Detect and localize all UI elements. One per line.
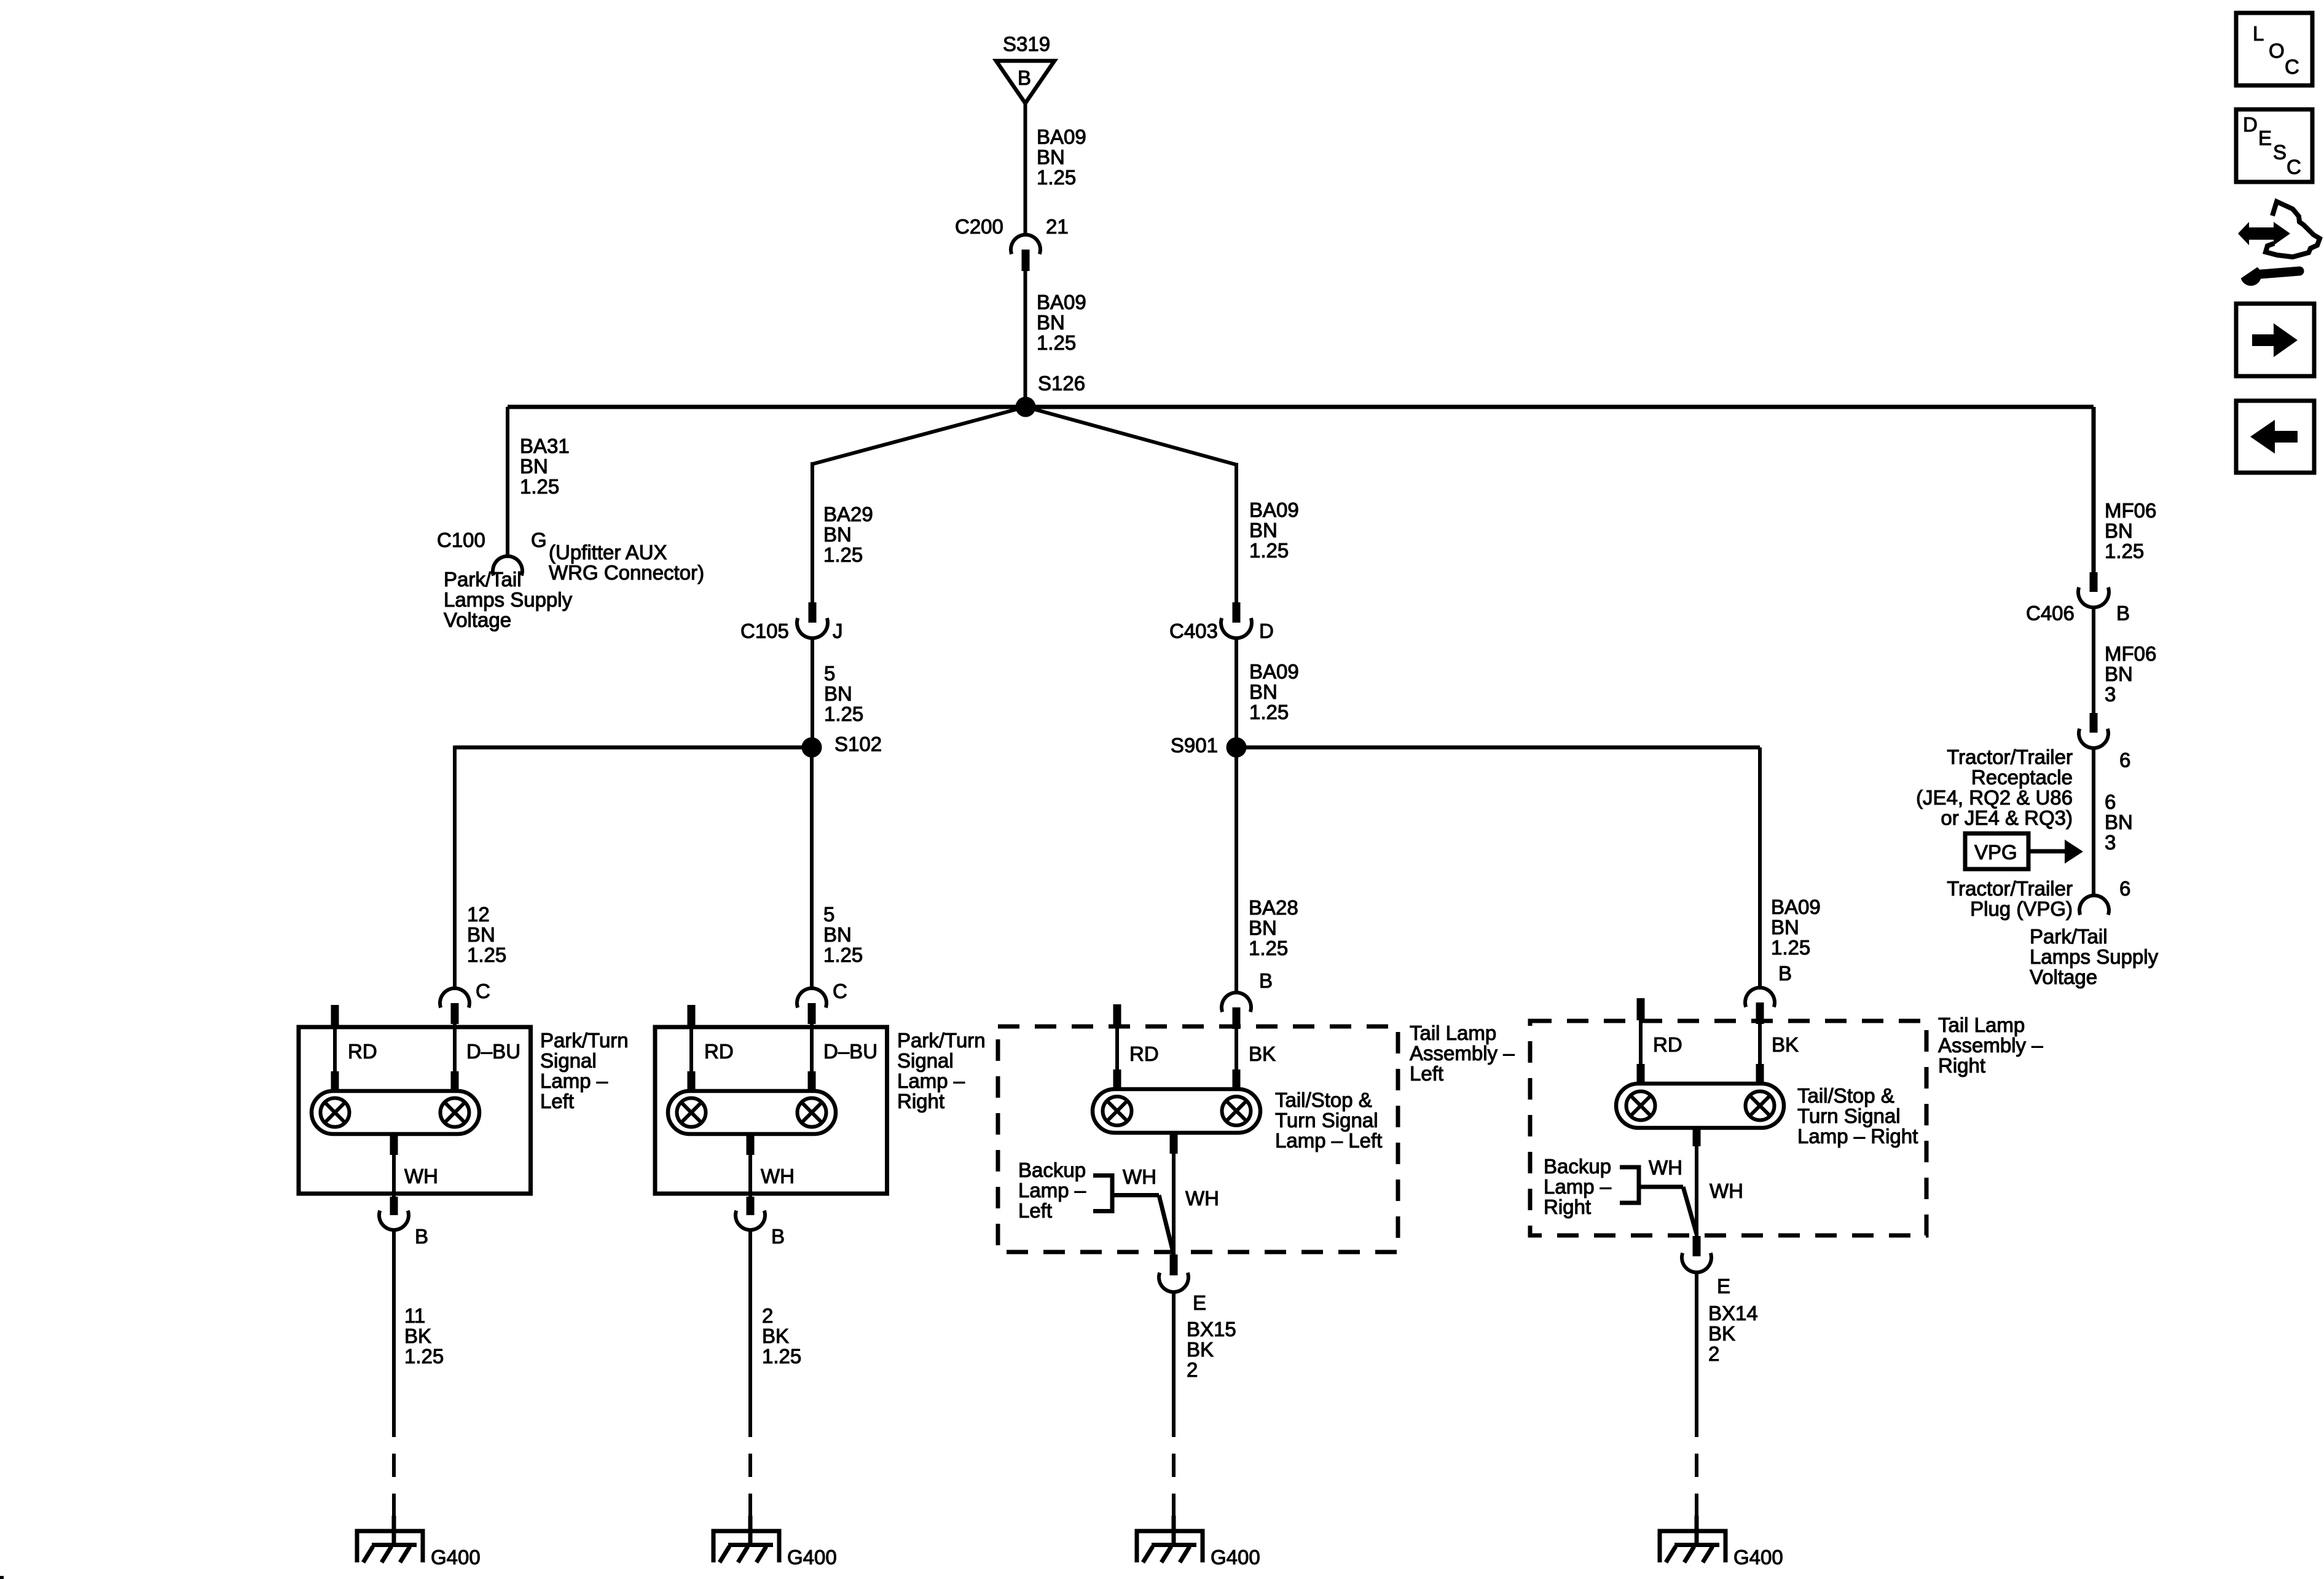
svg-text:Park/Tail: Park/Tail xyxy=(2030,925,2108,948)
svg-text:Turn Signal: Turn Signal xyxy=(1797,1105,1901,1127)
tail lamp left BK lead lamp pin xyxy=(1233,1069,1241,1089)
previous page arrow xyxy=(2274,431,2298,443)
park/turn signal lamp left component box xyxy=(299,1027,531,1194)
svg-text:Right: Right xyxy=(1938,1054,1985,1077)
svg-text:Park/Tail: Park/Tail xyxy=(444,568,522,591)
svg-text:1.25: 1.25 xyxy=(1249,937,1288,959)
tail lamp left BK lead wire xyxy=(1235,1029,1238,1071)
svg-text:1.25: 1.25 xyxy=(1037,166,1076,189)
tail lamp assembly right dashed box xyxy=(1530,1021,1926,1235)
connector C200 male pin xyxy=(1022,250,1030,271)
svg-text:3: 3 xyxy=(2105,831,2116,854)
svg-text:Lamp – Right: Lamp – Right xyxy=(1797,1125,1918,1148)
tail lamp left RD lead lamp pin xyxy=(1113,1069,1121,1089)
svg-text:WH: WH xyxy=(1649,1156,1682,1179)
svg-text:Tractor/Trailer: Tractor/Trailer xyxy=(1947,877,2073,900)
svg-text:C: C xyxy=(476,980,490,1002)
svg-text:Tractor/Trailer: Tractor/Trailer xyxy=(1947,746,2073,768)
svg-text:Left: Left xyxy=(540,1090,574,1112)
svg-text:Left: Left xyxy=(1018,1199,1052,1222)
tail lamp assembly left dashed box xyxy=(998,1026,1398,1252)
svg-text:G: G xyxy=(531,529,547,551)
svg-text:BA31: BA31 xyxy=(520,435,570,457)
svg-text:BA09: BA09 xyxy=(1249,660,1299,683)
next page arrow xyxy=(2252,334,2275,346)
wire 6 BN 3 between receptacle and plug xyxy=(2092,748,2095,896)
tail lamp right BK lead wire xyxy=(1758,1024,1762,1065)
park/turn signal lamp right RD lead wire xyxy=(689,1027,693,1073)
svg-text:(Upfitter AUX: (Upfitter AUX xyxy=(549,541,667,564)
park/turn signal lamp left bulb stadium outline xyxy=(312,1091,479,1134)
connector C403 male pin xyxy=(1233,602,1241,623)
VPG arrow head xyxy=(2065,840,2083,864)
svg-text:B: B xyxy=(771,1225,785,1248)
diagnostic icon panel outline xyxy=(2266,202,2320,257)
tail lamp right WH lamp pin xyxy=(1693,1128,1701,1146)
svg-text:1.25: 1.25 xyxy=(762,1345,801,1368)
svg-text:VPG: VPG xyxy=(1974,841,2017,864)
svg-text:BN: BN xyxy=(467,923,495,946)
backup lamp left bracket xyxy=(1093,1173,1112,1213)
svg-text:B: B xyxy=(1259,969,1273,992)
svg-text:D–BU: D–BU xyxy=(823,1040,877,1063)
VPG arrow shaft xyxy=(2028,849,2067,854)
svg-text:Voltage: Voltage xyxy=(444,608,511,631)
main horizontal bus wire from C100 branch to MF06 branch xyxy=(508,405,2094,409)
ground G400 symbol (lamp1) xyxy=(357,1516,423,1562)
diagnostic icon double arrow xyxy=(2238,222,2290,245)
svg-text:C105: C105 xyxy=(740,620,789,642)
svg-text:E: E xyxy=(2258,127,2272,149)
wire MF06 vertical from bus to C406 xyxy=(2092,407,2096,573)
svg-text:D: D xyxy=(2243,113,2258,136)
park/turn signal lamp left WH lead lamp pin xyxy=(390,1134,398,1155)
svg-text:Right: Right xyxy=(1544,1195,1591,1218)
connector C100 female arc xyxy=(493,556,522,575)
tail/stop lamp left filament circle right xyxy=(1222,1097,1251,1125)
connector C200 female arc xyxy=(1011,235,1040,254)
wire horizontal from S102 to left lamp branch xyxy=(455,746,812,750)
svg-text:1.25: 1.25 xyxy=(1771,936,1810,959)
svg-text:BN: BN xyxy=(1037,311,1065,334)
svg-text:Assembly –: Assembly – xyxy=(1410,1042,1515,1065)
connector B (tail lamp left) male pin xyxy=(1233,1007,1241,1029)
svg-text:D–BU: D–BU xyxy=(466,1040,520,1063)
svg-text:Receptacle: Receptacle xyxy=(1971,766,2073,789)
park/turn signal lamp left WH lead wire xyxy=(392,1155,396,1199)
svg-text:WH: WH xyxy=(1123,1165,1156,1188)
svg-text:Backup: Backup xyxy=(1544,1155,1611,1178)
svg-text:BA29: BA29 xyxy=(823,503,873,526)
svg-text:1.25: 1.25 xyxy=(1249,701,1289,723)
svg-text:1.25: 1.25 xyxy=(2105,540,2144,562)
svg-text:2: 2 xyxy=(1187,1358,1198,1381)
park/turn signal lamp left bulb filament circle left xyxy=(321,1098,350,1127)
svg-text:BN: BN xyxy=(823,523,852,546)
svg-text:BA09: BA09 xyxy=(1037,125,1086,148)
svg-text:Lamp –: Lamp – xyxy=(540,1069,608,1092)
svg-text:E: E xyxy=(1717,1275,1730,1297)
svg-text:Plug (VPG): Plug (VPG) xyxy=(1970,897,2073,920)
svg-text:C200: C200 xyxy=(955,215,1003,238)
park/turn signal lamp right WH lead wire xyxy=(748,1155,752,1199)
park/turn signal lamp right component box xyxy=(655,1027,887,1194)
svg-text:G400: G400 xyxy=(1733,1546,1783,1569)
svg-text:S901: S901 xyxy=(1171,734,1218,757)
svg-text:G400: G400 xyxy=(431,1546,481,1569)
svg-text:C: C xyxy=(2287,156,2301,178)
splice node S102 junction dot xyxy=(802,738,822,758)
svg-text:Signal: Signal xyxy=(540,1049,597,1072)
svg-text:5: 5 xyxy=(823,903,834,926)
svg-text:BA09: BA09 xyxy=(1771,896,1821,918)
svg-text:Lamp –: Lamp – xyxy=(1018,1179,1086,1202)
svg-text:Voltage: Voltage xyxy=(2030,966,2097,988)
park/turn signal lamp right D-BU lead lamp pin xyxy=(808,1071,816,1092)
tail/stop & turn signal lamp left bulb stadium xyxy=(1093,1089,1260,1133)
svg-text:Lamp –: Lamp – xyxy=(1544,1175,1612,1198)
svg-text:BN: BN xyxy=(520,455,548,478)
svg-text:J: J xyxy=(833,620,843,642)
connector C (lamp2) female arc xyxy=(797,988,826,1007)
svg-text:Assembly –: Assembly – xyxy=(1938,1034,2043,1057)
svg-text:WH: WH xyxy=(761,1165,795,1187)
svg-text:O: O xyxy=(2269,39,2285,62)
svg-text:BN: BN xyxy=(823,923,852,946)
svg-text:BN: BN xyxy=(1037,146,1065,168)
svg-text:Lamp –: Lamp – xyxy=(897,1069,965,1092)
tail/stop lamp right filament circle right xyxy=(1746,1092,1775,1120)
tail lamp right RD lead terminal pin xyxy=(1637,998,1645,1020)
wire dashed to G400 (lamp2) xyxy=(748,1414,752,1531)
wire BA09 from C200 to S126 xyxy=(1024,271,1027,403)
tail/stop lamp left filament circle left xyxy=(1103,1097,1132,1125)
tractor/trailer receptacle female arc xyxy=(2079,729,2108,748)
wire dashed to G400 (lamp1) xyxy=(392,1414,396,1531)
svg-text:6: 6 xyxy=(2105,790,2116,813)
svg-text:BN: BN xyxy=(1771,916,1799,939)
svg-text:Lamps Supply: Lamps Supply xyxy=(2030,945,2159,968)
svg-text:C: C xyxy=(2285,55,2299,78)
svg-text:BA09: BA09 xyxy=(1249,498,1299,521)
next page arrow box xyxy=(2236,304,2314,376)
svg-text:Turn Signal: Turn Signal xyxy=(1275,1109,1378,1132)
svg-text:B: B xyxy=(415,1225,428,1248)
LOC navigation box xyxy=(2236,13,2312,85)
svg-text:BA09: BA09 xyxy=(1037,291,1086,313)
park/turn signal lamp right bulb stadium outline xyxy=(668,1091,836,1134)
tail lamp left RD lead wire xyxy=(1115,1026,1119,1071)
svg-text:1.25: 1.25 xyxy=(823,543,863,566)
svg-text:Tail/Stop &: Tail/Stop & xyxy=(1797,1084,1894,1107)
wire diagonal from S126 to BA29 branch xyxy=(812,407,1026,464)
svg-text:Park/Turn: Park/Turn xyxy=(897,1029,986,1052)
svg-text:BK: BK xyxy=(762,1325,789,1347)
wire BA09 from C403 to S901 xyxy=(1235,638,1238,741)
park/turn signal lamp left connector B female arc xyxy=(379,1211,409,1230)
connector C406 male pin xyxy=(2090,572,2098,592)
park/turn signal lamp right RD lead terminal pin xyxy=(688,1005,696,1027)
tail lamp left WH lamp pin xyxy=(1170,1133,1178,1154)
tail lamp right WH wire xyxy=(1695,1145,1698,1237)
wire MF06 BN 3 from C406 to receptacle xyxy=(2092,607,2095,714)
wire 5 BN vertical from S102 down to lamp2 connector C xyxy=(810,747,814,988)
backup lamp right stub wire xyxy=(1639,1185,1683,1189)
svg-text:S319: S319 xyxy=(1003,33,1050,55)
park/turn signal lamp right bulb filament circle right xyxy=(798,1098,826,1127)
svg-text:RD: RD xyxy=(704,1040,734,1063)
connector E (tail lamp left) female arc xyxy=(1159,1273,1188,1292)
svg-text:BN: BN xyxy=(2105,811,2133,833)
svg-text:1.25: 1.25 xyxy=(823,943,863,966)
svg-text:BN: BN xyxy=(1249,519,1278,541)
svg-text:D: D xyxy=(1259,620,1274,642)
svg-text:BX14: BX14 xyxy=(1708,1302,1758,1325)
tail lamp left WH wire xyxy=(1172,1154,1176,1256)
park/turn signal lamp left D-BU lead wire xyxy=(453,1024,457,1073)
svg-text:MF06: MF06 xyxy=(2105,642,2156,665)
backup lamp right diagonal joining wire xyxy=(1683,1187,1697,1234)
svg-text:1.25: 1.25 xyxy=(1037,331,1076,354)
svg-text:5: 5 xyxy=(824,662,835,685)
ground G400 symbol (lamp2) xyxy=(713,1516,779,1562)
svg-text:Tail Lamp: Tail Lamp xyxy=(1938,1014,2025,1036)
wire 2 BK from lamp2 B to ground xyxy=(748,1230,752,1414)
tail lamp left RD lead terminal pin xyxy=(1113,1004,1121,1026)
connector E (tail lamp left) male pin xyxy=(1170,1254,1178,1275)
tail lamp right BK lead lamp pin xyxy=(1756,1064,1764,1084)
park/turn signal lamp left connector B male pin xyxy=(390,1197,398,1215)
svg-text:(JE4, RQ2 & U86: (JE4, RQ2 & U86 xyxy=(1916,786,2073,809)
svg-text:S: S xyxy=(2273,141,2287,163)
svg-text:B: B xyxy=(1018,66,1031,89)
svg-text:2: 2 xyxy=(1708,1342,1719,1365)
connector C105 male pin xyxy=(809,602,817,623)
wire 12 BN vertical to lamp1 connector C xyxy=(453,746,457,988)
svg-text:Right: Right xyxy=(897,1090,944,1112)
connector C (lamp1) male pin xyxy=(451,1003,459,1024)
wire BA31 vertical to C100 xyxy=(506,407,509,558)
DESC navigation box xyxy=(2236,109,2312,182)
VPG box xyxy=(1965,833,2028,869)
svg-text:BK: BK xyxy=(1187,1338,1214,1361)
svg-text:G400: G400 xyxy=(1211,1546,1260,1569)
svg-text:B: B xyxy=(2116,602,2130,624)
svg-text:C406: C406 xyxy=(2026,602,2075,624)
svg-text:WH: WH xyxy=(1185,1187,1219,1210)
tractor/trailer plug female arc xyxy=(2079,896,2109,915)
backup lamp right bracket xyxy=(1620,1165,1639,1205)
svg-text:Left: Left xyxy=(1410,1062,1443,1085)
tail lamp right RD lead lamp pin xyxy=(1637,1064,1645,1084)
svg-text:BK: BK xyxy=(1249,1042,1276,1065)
svg-text:WH: WH xyxy=(404,1165,438,1187)
svg-text:S126: S126 xyxy=(1038,372,1085,395)
svg-text:1.25: 1.25 xyxy=(404,1345,444,1368)
tail lamp right RD lead wire xyxy=(1639,1020,1643,1065)
tractor/trailer receptacle male pin xyxy=(2090,713,2098,733)
wire 5 BN from C105 to S102 xyxy=(811,638,814,741)
wire BX15 BK 2 from E to ground xyxy=(1172,1292,1176,1414)
svg-text:6: 6 xyxy=(2119,877,2130,900)
park/turn signal lamp right bulb filament circle left xyxy=(677,1098,706,1127)
wire BX14 BK 2 from E to ground xyxy=(1695,1272,1698,1414)
wire BA09 vertical to C403 xyxy=(1235,463,1238,604)
svg-text:BN: BN xyxy=(1249,680,1278,703)
park/turn signal lamp left D-BU lead lamp pin xyxy=(451,1071,459,1092)
ground G400 symbol (tail lamp right) xyxy=(1660,1516,1725,1562)
svg-text:WH: WH xyxy=(1710,1179,1743,1202)
wire dashed to G400 (tail lamp left) xyxy=(1172,1414,1176,1531)
svg-text:L: L xyxy=(2253,22,2264,45)
svg-text:BN: BN xyxy=(1249,916,1277,939)
park/turn signal lamp right RD lead lamp pin xyxy=(688,1071,696,1092)
connector C (lamp1) female arc xyxy=(440,988,469,1007)
ground G400 symbol (tail lamp left) xyxy=(1137,1516,1203,1562)
wire BA28 vertical from S901 to tail lamp left xyxy=(1235,747,1238,993)
connector C105 female arc xyxy=(797,618,828,639)
park/turn signal lamp right connector B female arc xyxy=(736,1211,765,1230)
svg-text:RD: RD xyxy=(1129,1042,1159,1065)
connector C403 female arc xyxy=(1221,618,1252,639)
park/turn signal lamp right connector B male pin xyxy=(747,1197,755,1215)
svg-text:MF06: MF06 xyxy=(2105,499,2156,522)
wire BA09 vertical to tail lamp right connector B xyxy=(1758,747,1762,988)
svg-text:21: 21 xyxy=(1046,215,1069,238)
svg-text:3: 3 xyxy=(2105,683,2116,706)
svg-text:6: 6 xyxy=(2119,749,2130,771)
park/turn signal lamp right D-BU lead wire xyxy=(810,1024,814,1073)
svg-text:WRG Connector): WRG Connector) xyxy=(549,561,704,584)
connector B (tail lamp right) female arc xyxy=(1745,988,1775,1007)
svg-text:BK: BK xyxy=(404,1325,431,1347)
svg-text:RD: RD xyxy=(348,1040,377,1063)
svg-text:BK: BK xyxy=(1708,1322,1735,1345)
wire BA09 from S319 to C200 xyxy=(1024,102,1027,235)
svg-text:1.25: 1.25 xyxy=(824,703,863,725)
connector C406 female arc xyxy=(2078,588,2109,608)
svg-text:RD: RD xyxy=(1653,1033,1682,1056)
wire diagonal from S126 to BA09 right branch xyxy=(1026,407,1236,465)
park/turn signal lamp left bulb filament circle right xyxy=(441,1098,469,1127)
svg-text:Park/Turn: Park/Turn xyxy=(540,1029,629,1052)
tail/stop lamp right filament circle left xyxy=(1627,1092,1655,1120)
svg-text:Signal: Signal xyxy=(897,1049,954,1072)
svg-text:Backup: Backup xyxy=(1018,1159,1086,1181)
tail/stop & turn signal lamp right bulb stadium xyxy=(1616,1084,1784,1128)
svg-text:1.25: 1.25 xyxy=(520,475,559,498)
svg-text:S102: S102 xyxy=(834,733,882,755)
svg-text:B: B xyxy=(1778,962,1792,985)
svg-text:2: 2 xyxy=(762,1304,773,1327)
svg-text:BX15: BX15 xyxy=(1187,1318,1236,1341)
svg-text:C100: C100 xyxy=(437,529,485,551)
svg-text:12: 12 xyxy=(467,903,490,926)
svg-text:or JE4 & RQ3): or JE4 & RQ3) xyxy=(1941,806,2073,829)
svg-text:BA28: BA28 xyxy=(1249,896,1298,919)
wire BA29 vertical to C105 xyxy=(811,462,814,604)
connector E (tail lamp right) male pin xyxy=(1693,1236,1701,1256)
svg-text:Lamps Supply: Lamps Supply xyxy=(444,588,573,611)
svg-text:1.25: 1.25 xyxy=(1249,539,1289,562)
svg-text:1.25: 1.25 xyxy=(467,943,506,966)
splice S319 triangle xyxy=(996,61,1054,103)
svg-text:E: E xyxy=(1193,1291,1206,1314)
backup lamp left diagonal joining wire xyxy=(1159,1195,1174,1255)
diagnostic icon wrench xyxy=(2240,265,2261,286)
svg-text:Tail/Stop &: Tail/Stop & xyxy=(1275,1089,1372,1111)
backup lamp left stub wire xyxy=(1112,1193,1159,1197)
svg-text:BN: BN xyxy=(824,682,852,705)
svg-text:BK: BK xyxy=(1772,1033,1799,1056)
svg-text:BN: BN xyxy=(2105,519,2133,542)
wire dashed to G400 (tail lamp right) xyxy=(1695,1414,1698,1531)
page corner mark xyxy=(0,1576,4,1579)
svg-text:G400: G400 xyxy=(787,1546,837,1569)
connector E (tail lamp right) female arc xyxy=(1682,1253,1711,1272)
svg-text:BN: BN xyxy=(2105,663,2133,685)
park/turn signal lamp left RD lead lamp pin xyxy=(331,1071,339,1092)
svg-text:C403: C403 xyxy=(1169,620,1218,642)
previous page arrow box xyxy=(2236,401,2314,473)
park/turn signal lamp left RD lead terminal pin xyxy=(331,1005,339,1027)
svg-text:Lamp – Left: Lamp – Left xyxy=(1275,1129,1382,1152)
svg-text:Tail Lamp: Tail Lamp xyxy=(1410,1022,1496,1044)
wire 11 BK from lamp1 B to ground xyxy=(392,1230,396,1414)
svg-text:11: 11 xyxy=(404,1304,425,1327)
park/turn signal lamp left RD lead wire xyxy=(333,1027,337,1073)
park/turn signal lamp right WH lead lamp pin xyxy=(747,1134,755,1155)
svg-text:C: C xyxy=(833,980,847,1002)
connector B (tail lamp right) male pin xyxy=(1756,1002,1764,1024)
splice node S901 junction dot xyxy=(1227,738,1247,758)
connector B (tail lamp left) female arc xyxy=(1222,993,1251,1012)
connector C (lamp2) male pin xyxy=(808,1003,816,1024)
wire horizontal from S901 to right tail lamp branch xyxy=(1236,746,1760,750)
splice node S126 junction dot xyxy=(1016,397,1036,417)
